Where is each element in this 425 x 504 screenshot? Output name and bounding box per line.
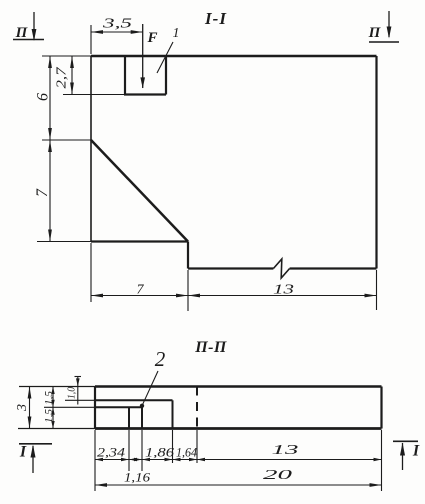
extension lines below bar [95, 430, 382, 491]
svg-text:1,5: 1,5 [43, 390, 55, 405]
part outline (section I-I) [91, 56, 377, 269]
svg-text:1,0: 1,0 [67, 386, 78, 399]
svg-text:F: F [146, 30, 157, 46]
svg-text:1,86: 1,86 [145, 446, 175, 460]
dimension 6 [35, 56, 92, 140]
svg-text:3,5: 3,5 [101, 16, 132, 31]
dimension row 2,34 1,86 1,64 13 [95, 442, 382, 461]
dimension 1,0 [67, 376, 82, 405]
dimension 3 [15, 387, 31, 429]
svg-text:Π: Π [368, 25, 382, 41]
svg-text:1,16: 1,16 [124, 471, 151, 485]
section cut marker II (right) [368, 11, 399, 42]
svg-text:2,7: 2,7 [54, 66, 69, 89]
svg-text:1: 1 [173, 26, 180, 41]
svg-text:Π-Π: Π-Π [194, 339, 227, 356]
face extension lines (left) [18, 387, 95, 429]
svg-text:2: 2 [155, 347, 166, 371]
dimension 3,5 [91, 16, 143, 55]
bar outline (section II-II) [95, 387, 382, 429]
section marker I (right) [393, 441, 420, 470]
svg-text:7: 7 [137, 283, 145, 298]
force arrow F [140, 24, 157, 88]
dimension 13 (top view) [188, 270, 377, 310]
svg-text:2,34: 2,34 [97, 446, 125, 460]
svg-text:1,5: 1,5 [43, 408, 55, 423]
inner edge at depth 1,5 [44, 406, 142, 408]
section marker I (left) [19, 444, 52, 474]
dashed line at 7 units [196, 387, 198, 429]
svg-text:I-I: I-I [204, 9, 227, 28]
dimensions 1,5 / 1,5 [43, 387, 55, 429]
dimension row 1,16 and 20 [95, 468, 382, 487]
dimension 2,7 [54, 56, 125, 95]
svg-text:I: I [412, 443, 420, 460]
leader label 2 [140, 347, 166, 408]
svg-text:13: 13 [273, 283, 294, 298]
leader label 1 [157, 26, 180, 73]
slot (element 1) [124, 56, 166, 95]
dimension 7 (horizontal) [91, 243, 188, 311]
svg-text:6: 6 [35, 93, 52, 101]
dimension 7 (vertical) [34, 140, 91, 242]
svg-text:I: I [19, 444, 27, 461]
section cut marker II (left) [13, 12, 44, 41]
svg-text:Π: Π [15, 25, 29, 41]
svg-text:7: 7 [34, 188, 51, 197]
svg-text:20: 20 [263, 468, 292, 483]
inner vertical edges [129, 406, 142, 429]
svg-text:13: 13 [272, 442, 300, 457]
svg-text:1,64: 1,64 [176, 446, 197, 460]
inner edge at depth 1,0 [65, 400, 173, 428]
break symbol [273, 259, 289, 278]
svg-text:3: 3 [15, 404, 30, 412]
